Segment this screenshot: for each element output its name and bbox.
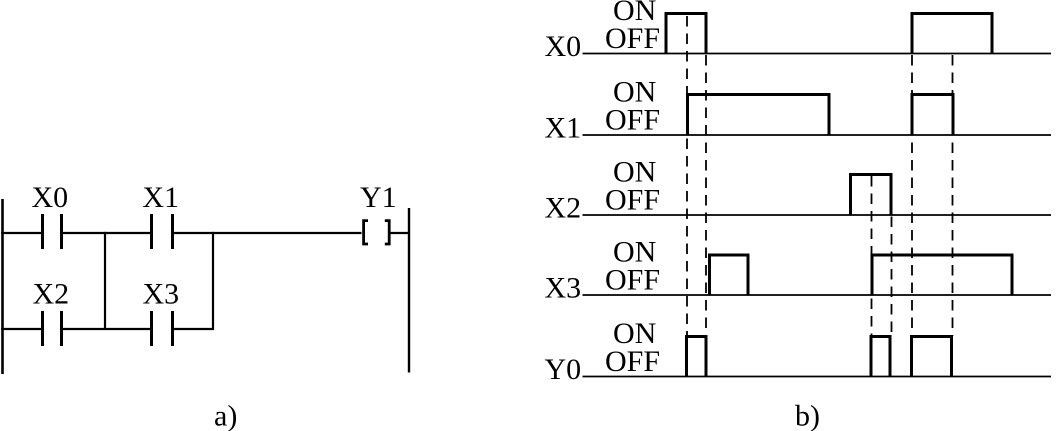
svg-text:X1: X1	[545, 112, 582, 145]
svg-text:Y1: Y1	[360, 181, 397, 214]
svg-text:OFF: OFF	[605, 104, 660, 137]
svg-text:OFF: OFF	[605, 184, 660, 217]
svg-text:OFF: OFF	[605, 345, 660, 378]
svg-text:X2: X2	[33, 278, 70, 311]
svg-text:X3: X3	[545, 272, 582, 305]
svg-text:X0: X0	[32, 181, 69, 214]
svg-text:b): b)	[795, 400, 820, 431]
svg-text:X2: X2	[545, 192, 582, 225]
svg-text:X1: X1	[142, 181, 179, 214]
svg-text:OFF: OFF	[605, 22, 660, 55]
svg-text:OFF: OFF	[605, 264, 660, 297]
svg-text:a): a)	[214, 400, 237, 431]
svg-text:X0: X0	[545, 30, 582, 63]
svg-text:X3: X3	[143, 278, 180, 311]
svg-text:Y0: Y0	[545, 353, 582, 386]
